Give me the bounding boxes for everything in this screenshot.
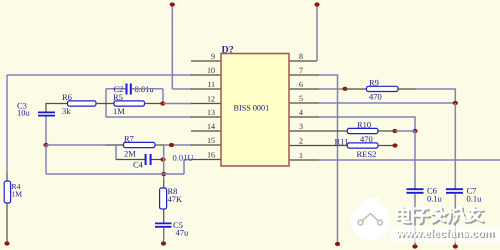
- capacitor C6 plates: [407, 188, 424, 190]
- svg-text:12: 12: [207, 95, 215, 104]
- wire: R4 top lead: [6, 172, 8, 181]
- capacitor C5 plates: [155, 222, 172, 224]
- wire: pin-4 right and down at x415: [319, 117, 415, 131]
- wire: C2 loop left vertical: [105, 89, 107, 117]
- wire: junction to pin 12: [163, 103, 192, 105]
- svg-text:1M: 1M: [12, 190, 23, 199]
- svg-text:R11: R11: [335, 137, 349, 147]
- node: top-left junction dot: [170, 2, 175, 6]
- node: pin-15 left junction dot: [43, 143, 48, 147]
- svg-text:1M: 1M: [113, 106, 125, 116]
- wire: R7 left lead: [106, 144, 124, 146]
- svg-text:8: 8: [299, 52, 303, 61]
- svg-text:13: 13: [207, 108, 215, 117]
- wire: pin-2 lead to R11: [319, 145, 347, 147]
- wire: pin-15 row left segment: [46, 144, 106, 146]
- wire: x46 vertical pin15 to y174: [45, 145, 47, 174]
- svg-text:9: 9: [211, 52, 215, 61]
- wire: left rail down to R4: [6, 75, 8, 172]
- node: R11 output dot: [392, 143, 397, 147]
- svg-text:RES2: RES2: [357, 149, 377, 159]
- node: pin-6 junction dot: [342, 87, 347, 91]
- capacitor C3 plates: [38, 111, 55, 113]
- node: C4 junction dot: [160, 157, 165, 161]
- svg-text:R10: R10: [357, 120, 371, 130]
- wire: pin-11 riser from top junction: [171, 5, 173, 89]
- svg-text:D?: D?: [222, 45, 234, 56]
- resistor R8 body: [160, 188, 167, 209]
- wire: pin-15 row right segment: [164, 144, 192, 146]
- wire: pin-6 to R9: [319, 88, 345, 90]
- pin number labels right: [299, 52, 303, 160]
- svg-text:R9: R9: [369, 78, 379, 88]
- svg-text:0.01U: 0.01U: [173, 153, 194, 163]
- IC U1 pin stubs left: [191, 61, 221, 160]
- pin number labels left: [207, 52, 215, 160]
- svg-text:C4: C4: [133, 160, 144, 170]
- svg-text:3: 3: [299, 122, 303, 131]
- node: pin-12 junction dot: [160, 101, 165, 105]
- node: y174 junction dot: [161, 172, 166, 176]
- wire: pin-3 lead to R10: [319, 130, 347, 132]
- watermark url backdrop band: [391, 226, 500, 243]
- wire: R5 right lead to junction: [145, 103, 164, 105]
- svg-text:0.1u: 0.1u: [467, 194, 483, 204]
- wire: C4 left lead: [116, 159, 145, 161]
- node: pin-15 junction dot: [169, 143, 174, 147]
- wire: C3 bottom lead down to pin-15 row: [45, 117, 47, 146]
- capacitor C2 plates: [126, 84, 128, 95]
- node: C5 bottom dot: [161, 241, 166, 245]
- wire: vertical x163 pin15 row to R8: [163, 145, 165, 180]
- node: pin-7 riser bottom dot: [335, 242, 340, 246]
- wire: C2 loop top left segment: [106, 88, 126, 90]
- svg-text:2: 2: [299, 137, 303, 146]
- watermark chinese text 电子发烧友: [397, 207, 484, 224]
- svg-text:3k: 3k: [62, 106, 71, 116]
- wire: R8 bottom lead to C5: [163, 209, 165, 223]
- capacitor C7 plates: [446, 188, 463, 190]
- svg-text:R7: R7: [124, 134, 134, 144]
- IC U1 pin stubs right: [289, 61, 319, 160]
- svg-text:R5: R5: [113, 92, 123, 102]
- wire: x455 vertical down to C7: [454, 103, 456, 189]
- node: C6 bottom dot: [412, 244, 417, 248]
- op IC body BISS0001: [221, 54, 289, 167]
- svg-text:2M: 2M: [124, 149, 136, 159]
- svg-text:470: 470: [369, 92, 382, 102]
- wire: lead between R6 and R5: [96, 103, 114, 105]
- svg-text:47u: 47u: [176, 228, 190, 238]
- wire: pin-5 horizontal: [319, 102, 455, 104]
- wire: R9 output over and down to pin-5 row: [416, 89, 455, 103]
- wire: C2 loop top right segment: [132, 88, 164, 90]
- svg-text:4: 4: [299, 108, 303, 117]
- svg-text:www.elecfans.com: www.elecfans.com: [395, 228, 494, 240]
- wire: R9 right lead: [398, 88, 416, 90]
- svg-text:7: 7: [299, 66, 303, 75]
- wire: R11 right lead: [378, 145, 395, 147]
- svg-text:BISS 0001: BISS 0001: [234, 104, 270, 113]
- wire: C4 branch vertical from R7 row: [115, 145, 117, 160]
- node: top-right junction dot: [314, 2, 319, 6]
- wire: C3 top lead corner to R6: [46, 104, 68, 113]
- svg-text:14: 14: [207, 122, 215, 131]
- svg-text:10: 10: [207, 66, 215, 75]
- wire: pin-8 riser to top: [316, 5, 318, 61]
- resistor R11 body: [347, 143, 378, 148]
- watermark url www.elecfans.com: [395, 228, 496, 241]
- wire: C4 right lead: [152, 159, 164, 161]
- wire: R9 left lead: [345, 88, 367, 90]
- svg-text:0.1u: 0.1u: [427, 194, 443, 204]
- wire: pin-7 wire right then long riser down: [319, 75, 338, 243]
- resistor R7 body: [124, 142, 156, 147]
- svg-text:5: 5: [299, 94, 303, 103]
- svg-text:11: 11: [207, 80, 215, 89]
- wire: C7 bottom lead: [454, 194, 456, 246]
- watermark logo leaf: [351, 196, 390, 240]
- node: C7 bottom dot: [453, 244, 458, 248]
- node: R10 output dot: [392, 129, 397, 133]
- wire: pin-11 horizontal: [172, 88, 192, 90]
- wire: R7 right lead: [155, 144, 164, 146]
- wire: R10 dot to x415: [395, 130, 415, 132]
- wire: y174 horizontal: [46, 173, 184, 175]
- svg-text:10u: 10u: [17, 108, 31, 118]
- resistor R10 body: [347, 128, 378, 133]
- node: pin-5 junction dot: [453, 101, 458, 105]
- svg-text:6: 6: [299, 80, 303, 89]
- resistor R4 body: [4, 181, 10, 203]
- wire: C2 loop right vertical down to pin-12 row: [162, 89, 164, 104]
- wire: pin-1 long horizontal to right edge: [319, 159, 500, 161]
- svg-text:15: 15: [207, 136, 215, 145]
- wire: x415 vertical down to C6: [414, 131, 416, 189]
- svg-text:R6: R6: [62, 92, 72, 102]
- svg-text:47K: 47K: [168, 194, 184, 204]
- wire: R10 right lead: [378, 130, 395, 132]
- wire: C6 bottom lead: [414, 194, 416, 246]
- wire: R8 top lead: [163, 180, 165, 188]
- wire: x184 vertical to pin-16 row: [183, 160, 185, 175]
- wire: R4 bottom lead to bottom node: [6, 203, 8, 243]
- node: bottom-left dot: [4, 241, 9, 245]
- resistor R9 body: [367, 86, 399, 91]
- node: x415 pin-3 row dot: [412, 129, 417, 133]
- wire: C5 bottom lead: [163, 228, 165, 243]
- resistor R5 body: [114, 101, 145, 106]
- resistor R6 body: [68, 101, 97, 106]
- svg-text:16: 16: [207, 151, 215, 160]
- wire: pin-10 horizontal to left rail: [7, 74, 192, 76]
- capacitor C4 plates: [145, 154, 147, 165]
- svg-text:1: 1: [299, 151, 303, 160]
- wire: pin-16 horizontal: [184, 159, 192, 161]
- wire: pin-13 horizontal: [106, 116, 192, 118]
